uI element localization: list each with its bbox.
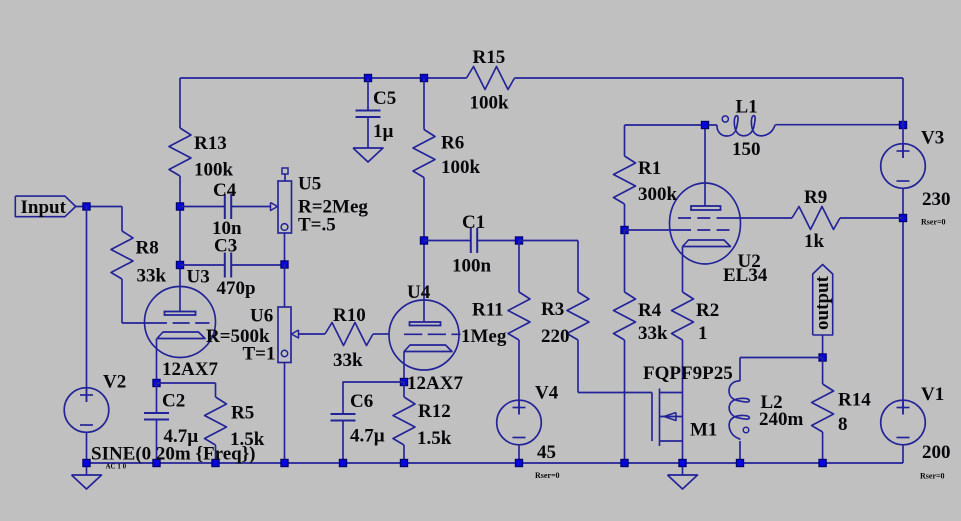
node junction R1-R4-grid (621, 226, 628, 233)
pot U6 body (278, 307, 291, 363)
wire R6 top lead (423, 78, 425, 130)
wire U3 grid pin (122, 322, 150, 324)
wire output to L2 (740, 357, 823, 359)
svg-text:V4: V4 (535, 383, 559, 404)
wire U6 top pin (284, 265, 286, 308)
wire C2 stem bottom (156, 420, 158, 464)
svg-text:100n: 100n (452, 256, 492, 277)
triode U4 envelope (389, 300, 459, 370)
inductor L2 phase dot (743, 427, 749, 433)
svg-text:12AX7: 12AX7 (162, 359, 218, 380)
wire C1 left stem (424, 240, 471, 242)
svg-text:240m: 240m (759, 409, 804, 430)
resistor R10 (325, 323, 373, 346)
wire R5 top lead (215, 383, 217, 397)
node junction R6 top (420, 74, 427, 81)
svg-text:1k: 1k (804, 231, 825, 252)
node junction U2 plate (701, 121, 708, 128)
node junction rail-M1 (679, 459, 686, 466)
wire C6 elbow (343, 382, 404, 414)
svg-text:R1: R1 (638, 158, 661, 179)
wire U4 plate pin (423, 241, 425, 322)
capacitor C1 (470, 228, 472, 253)
svg-text:T=.5: T=.5 (298, 214, 336, 235)
wire C2 stem top (156, 383, 158, 413)
wire R11 bottom lead (518, 340, 520, 415)
wire output pin (822, 335, 824, 358)
wire V3 bottom to V1 (902, 188, 904, 414)
svg-text:33k: 33k (638, 323, 668, 344)
node junction R11 top (515, 237, 522, 244)
pentode U2 envelope (670, 183, 741, 264)
svg-text:U3: U3 (187, 267, 210, 288)
wire C3 left stem (180, 264, 225, 266)
svg-text:SINE(0 20m {Freq}): SINE(0 20m {Freq}) (91, 444, 256, 465)
svg-text:300k: 300k (638, 184, 678, 205)
wire top rail left (180, 77, 467, 79)
svg-text:V1: V1 (921, 384, 944, 405)
resistor R15 (467, 67, 515, 90)
node junction rail-V4 (515, 459, 522, 466)
triode U4 grid dashes (404, 333, 461, 335)
resistor R2 (672, 292, 694, 340)
wire C4 right stem (231, 206, 270, 208)
capacitor C4 (224, 194, 226, 219)
wire R3 bottom lead (577, 340, 579, 393)
voltage source V3 (881, 144, 926, 189)
svg-text:R14: R14 (838, 390, 871, 411)
svg-text:100k: 100k (441, 157, 481, 178)
node junction L1-V3 (899, 121, 906, 128)
wire U5 top pin (284, 174, 286, 181)
svg-text:R6: R6 (441, 133, 464, 154)
ground below V2 (72, 475, 102, 489)
node junction rail-L2 (736, 459, 743, 466)
node junction rail-R5 (212, 459, 219, 466)
svg-text:1: 1 (698, 323, 708, 344)
transistor M1 gate bar (651, 393, 653, 442)
voltage source V2 (64, 388, 109, 433)
pentode U2 plate (691, 206, 721, 210)
pentode U2 screen dashes (678, 217, 730, 219)
svg-text:230: 230 (922, 189, 951, 210)
svg-text:AC 1 0: AC 1 0 (106, 463, 127, 471)
wire C4 left stem (180, 206, 225, 208)
node junction C3 tap (176, 261, 183, 268)
wire cathode to R5 (157, 382, 216, 384)
wire R12 top lead (403, 382, 405, 397)
wire V2 top lead (86, 207, 88, 403)
triode U3 plate (165, 312, 196, 316)
wire C1 right stem (477, 240, 519, 242)
wire V2 bottom lead (86, 432, 88, 475)
node junction R6-U4-C1 (420, 237, 427, 244)
pot U6 wiper mark (281, 350, 287, 356)
node junction input (83, 203, 90, 210)
resistor R14 (812, 384, 834, 432)
wire U6 bottom pin (284, 363, 286, 464)
svg-text:U4: U4 (407, 282, 431, 303)
wire R1 top lead (624, 125, 626, 156)
pot U5 body (278, 181, 292, 233)
svg-text:R5: R5 (231, 403, 254, 424)
svg-text:R12: R12 (418, 401, 451, 422)
svg-text:V3: V3 (921, 128, 944, 149)
inductor L1 (717, 116, 776, 136)
node junction rail-C6 (339, 459, 346, 466)
voltage source V1 (881, 400, 926, 445)
svg-text:8: 8 (838, 414, 848, 435)
capacitor C6 (331, 413, 356, 415)
svg-text:1.5k: 1.5k (417, 428, 452, 449)
svg-text:FQPF9P25: FQPF9P25 (643, 363, 733, 384)
wire R4 bottom lead (624, 340, 626, 463)
node junction rail-R12 (400, 459, 407, 466)
svg-text:R2: R2 (696, 300, 719, 321)
svg-text:100k: 100k (194, 160, 234, 181)
wire R3 to M1 gate (578, 392, 652, 394)
svg-text:output: output (812, 275, 833, 330)
resistor R12 (393, 397, 415, 445)
wire R9 to rail (840, 217, 903, 219)
wire R13 bottom lead (179, 176, 181, 207)
wire bottom rail (87, 462, 904, 464)
svg-text:R8: R8 (136, 238, 159, 259)
svg-text:Rser=0: Rser=0 (920, 472, 945, 481)
svg-text:C5: C5 (373, 88, 396, 109)
capacitor C2 (144, 412, 169, 414)
wire V1 bottom lead (902, 445, 904, 463)
wire C6 stem bottom (342, 421, 344, 464)
wire U6 wiper to R10 (299, 333, 326, 335)
voltage source V4 (497, 400, 542, 445)
wire R10 to U4 grid (373, 333, 389, 335)
node junction rail-V2 (83, 459, 90, 466)
svg-text:100k: 100k (470, 93, 510, 114)
svg-text:EL34: EL34 (723, 265, 768, 286)
transistor M1 channel bar (659, 389, 661, 447)
svg-text:33k: 33k (333, 350, 363, 371)
pentode U2 cathode (683, 240, 731, 247)
node junction output (819, 354, 826, 361)
node junction rail-U6 (281, 459, 288, 466)
wire R2 bottom to rail (682, 340, 684, 463)
svg-text:M1: M1 (690, 420, 717, 441)
svg-text:R9: R9 (804, 187, 827, 208)
ground below M1 stem (682, 463, 684, 475)
svg-text:470p: 470p (217, 278, 256, 299)
svg-text:4.7µ: 4.7µ (350, 426, 385, 447)
wire input node (76, 206, 122, 208)
wire C5 stem bottom (367, 117, 369, 148)
node junction rail-R4 (621, 459, 628, 466)
node junction C5 top (364, 74, 371, 81)
pot U5 wiper mark (281, 224, 288, 231)
wire U2 cathode pin (682, 247, 684, 293)
node junction R9-V3 (899, 214, 906, 221)
svg-text:33k: 33k (137, 266, 167, 287)
resistor R6 (413, 130, 435, 178)
wire V4 bottom lead (518, 445, 520, 463)
svg-text:L1: L1 (736, 97, 758, 118)
transistor M1 body arrow (664, 413, 676, 421)
inductor L2 (729, 381, 749, 440)
wire V3 top lead (902, 78, 904, 158)
node junction U5-U6-C3 (281, 261, 288, 268)
wire R8 top lead (121, 207, 123, 232)
wire top rail right (515, 77, 904, 79)
triode U4 plate (410, 322, 441, 326)
svg-text:Rser=0: Rser=0 (535, 471, 560, 480)
pentode U2 grid dashes (678, 229, 730, 231)
resistor R5 (205, 397, 227, 445)
wire L2 top lead (739, 358, 741, 382)
wire R1 bottom lead (624, 204, 626, 230)
capacitor C3 (224, 253, 226, 278)
wire U5 bottom pin (284, 233, 286, 265)
wire R8 bottom lead (121, 279, 123, 323)
resistor R9 (792, 207, 840, 230)
svg-text:R10: R10 (333, 305, 366, 326)
svg-text:Input: Input (21, 197, 67, 218)
wire U3 plate pin (179, 207, 181, 312)
svg-text:1µ: 1µ (373, 121, 394, 142)
svg-text:R15: R15 (473, 47, 506, 68)
svg-text:200: 200 (922, 442, 951, 463)
resistor R13 (169, 128, 191, 176)
triode U3 envelope (145, 287, 216, 358)
resistor R8 (111, 231, 133, 279)
transistor M1 source stub (660, 440, 683, 442)
svg-text:U6: U6 (250, 305, 273, 326)
resistor R1 (614, 156, 636, 204)
triode U4 cathode (404, 345, 452, 352)
svg-text:C1: C1 (462, 212, 485, 233)
svg-text:150: 150 (732, 139, 761, 160)
wire U2 plate pin (704, 125, 706, 206)
wire R12 bottom lead (403, 445, 405, 463)
flag output (813, 265, 833, 336)
svg-text:C3: C3 (214, 236, 237, 257)
svg-text:R4: R4 (638, 300, 662, 321)
svg-text:Rser=0: Rser=0 (921, 218, 946, 227)
svg-text:45: 45 (537, 442, 556, 463)
svg-text:U5: U5 (298, 174, 321, 195)
resistor R3 (567, 292, 589, 340)
wire U2 screen pin to R9 (730, 217, 793, 219)
wire R6 bottom lead (423, 178, 425, 241)
triode U3 grid dashes (150, 322, 210, 324)
node junction rail-C2 (153, 459, 160, 466)
node junction U4 cathode (400, 378, 407, 385)
wire C5 stem top (367, 78, 369, 111)
transistor M1 drain stub (660, 392, 683, 394)
svg-text:1Meg: 1Meg (461, 326, 507, 347)
wire R11 top lead (518, 241, 520, 293)
pot U6 wiper arrow (292, 330, 299, 338)
node junction R13-C4 (176, 203, 183, 210)
node junction U3 cathode (153, 379, 160, 386)
svg-text:C6: C6 (350, 391, 373, 412)
ground below C5 (353, 148, 383, 162)
inductor L1 phase dot (722, 116, 728, 122)
wire U4 cathode pin (403, 352, 405, 383)
transistor M1 body stub (660, 416, 683, 418)
svg-text:C2: C2 (162, 391, 185, 412)
resistor R4 (614, 292, 636, 340)
wire R1 to L1 (625, 124, 718, 126)
wire R4 top lead (624, 230, 626, 292)
svg-text:T=1: T=1 (243, 344, 276, 365)
wire R13 top lead (179, 78, 181, 128)
svg-text:C4: C4 (213, 180, 237, 201)
wire C3 right stem (231, 264, 284, 266)
node junction rail-R14 (819, 459, 826, 466)
svg-text:R11: R11 (472, 300, 504, 321)
triode U3 cathode (157, 332, 205, 339)
svg-text:12AX7: 12AX7 (407, 373, 463, 394)
wire R5 bottom lead (215, 445, 217, 463)
pot U5 top pin square (282, 168, 288, 174)
wire R14 top lead (822, 358, 824, 385)
flag Input (15, 196, 75, 217)
resistor R11 (508, 292, 530, 340)
svg-text:R3: R3 (541, 299, 564, 320)
ground below M1 (668, 475, 698, 489)
wire R14 bottom lead (822, 432, 824, 463)
pot U5 wiper arrow (271, 203, 278, 211)
capacitor C5 (356, 110, 381, 112)
wire L2 bottom lead (739, 441, 741, 463)
svg-text:R13: R13 (194, 133, 227, 154)
wire U3 cathode pin (156, 339, 158, 384)
wire C1 to R3 (519, 240, 578, 242)
svg-text:220: 220 (541, 326, 570, 347)
wire L1 to V3 rail (776, 124, 904, 126)
wire R3 top lead (577, 241, 579, 293)
svg-text:V2: V2 (103, 372, 126, 393)
wire U2 grid pin (625, 229, 679, 231)
